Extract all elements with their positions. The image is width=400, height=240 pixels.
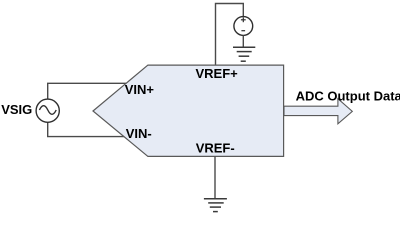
svg-text:VIN-: VIN-	[126, 126, 152, 141]
ground (bottom, below VREF-)	[204, 199, 227, 212]
svg-text:VREF+: VREF+	[196, 66, 239, 81]
svg-text:VIN+: VIN+	[125, 82, 155, 97]
wire from VSIG bottom to VIN-	[48, 122, 130, 137]
svg-text:ADC Output Data: ADC Output Data	[296, 88, 400, 103]
ADC U1	[93, 65, 284, 156]
pin label VIN+	[125, 82, 155, 97]
wire from VREF+ up to top source	[216, 4, 244, 66]
pin label VREF-	[196, 140, 235, 155]
pin label VIN-	[126, 126, 152, 141]
voltage source VREF	[234, 17, 253, 36]
label ADC Output Data	[296, 88, 400, 103]
ground (top, below VREF source)	[233, 47, 255, 61]
pin label VREF+	[196, 66, 239, 81]
svg-text:VREF-: VREF-	[196, 140, 235, 155]
ADC output block arrow	[284, 99, 352, 124]
label VSIG	[1, 102, 32, 117]
svg-text:VSIG: VSIG	[1, 102, 32, 117]
wire from VREF source to ground	[242, 35, 244, 47]
wire from VREF- down to ground	[214, 156, 216, 198]
wire from VSIG top to VIN+	[48, 83, 128, 99]
voltage source VSIG	[36, 99, 59, 122]
